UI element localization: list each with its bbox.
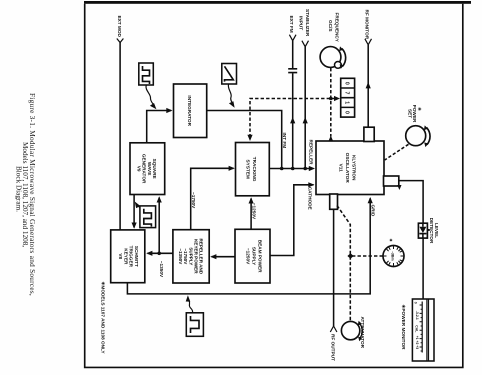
wire -1350V branch to square wave gen <box>158 198 160 254</box>
FREQUENCY knob <box>320 46 346 69</box>
svg-text:EXT MOD: EXT MOD <box>117 16 122 38</box>
dashed linkage knob to klystron <box>330 68 332 137</box>
svg-text:V11: V11 <box>339 164 344 172</box>
wire EXT MOD to SCHMITT TRIGGER <box>119 43 121 230</box>
wire beam supply to repeller supply <box>212 256 236 258</box>
svg-text:SUPPLY: SUPPLY <box>252 247 257 266</box>
svg-text:+1 +2 +3: +1 +2 +3 <box>415 336 419 350</box>
junction diamond on linkage <box>347 253 353 259</box>
wire klystron top stub to power monitor <box>399 181 423 299</box>
svg-text:−1350V: −1350V <box>159 261 164 278</box>
border frame of diagram <box>84 1 471 367</box>
svg-text:V8: V8 <box>118 253 123 259</box>
block SQUARE WAVE GENERATOR V9 <box>130 143 165 195</box>
node EXT FM connector <box>288 16 297 169</box>
node STABILIZER INPUT connector <box>298 9 309 169</box>
block BEAM POWER SUPPLY <box>235 229 270 283</box>
junction dots on repeller bus <box>303 167 307 171</box>
svg-text:REPELLER: REPELLER <box>309 139 314 165</box>
svg-text:0: 0 <box>413 302 417 304</box>
svg-text:7: 7 <box>344 92 350 95</box>
dBm meter circle <box>383 238 404 266</box>
svg-text:BEAM POWER: BEAM POWER <box>258 240 263 273</box>
frequency dial counter 0710 <box>341 78 355 117</box>
svg-text:TRACKING: TRACKING <box>252 157 257 182</box>
svg-text:RF OUTPUT: RF OUTPUT <box>331 334 336 361</box>
node RF OUTPUT connector <box>330 209 337 361</box>
svg-text:-dBm: -dBm <box>390 251 394 260</box>
wire RF MONITOR from klystron stub <box>367 45 369 128</box>
svg-text:INTEGRATOR: INTEGRATOR <box>187 95 192 126</box>
klystron RF monitor stub <box>364 127 374 141</box>
waveform icon box A (square wave at integrator input) <box>139 63 157 109</box>
svg-text:✳MODELS 1107 AND 1108 ONLY: ✳MODELS 1107 AND 1108 ONLY <box>100 282 105 355</box>
svg-text:OSCILLATOR: OSCILLATOR <box>345 153 350 184</box>
svg-text:RF MONITOR: RF MONITOR <box>365 10 370 40</box>
node RF MONITOR connector <box>365 10 372 128</box>
ATTENUATOR knob <box>341 321 362 342</box>
svg-text:V9: V9 <box>136 166 141 172</box>
svg-text:FREQUENCY: FREQUENCY <box>335 13 340 43</box>
waveform icon box D (keyer pulse) <box>186 295 204 336</box>
waveform icon box C (square wave at schmitt input) <box>135 202 156 228</box>
svg-text:−1250V: −1250V <box>251 203 256 220</box>
squiggle arrow to wire <box>228 84 233 105</box>
dashed branch to counter <box>332 98 338 100</box>
svg-text:STABILIZER: STABILIZER <box>305 9 310 37</box>
node EXT MOD connector <box>117 16 124 230</box>
svg-text:-3-2-1: -3-2-1 <box>415 311 419 320</box>
wire RF OUTPUT from klystron stub <box>333 209 335 326</box>
svg-text:−1750V: −1750V <box>191 192 196 209</box>
wire SQUARE WAVE GEN to INTEGRATOR <box>147 111 172 143</box>
svg-text:−1350V: −1350V <box>178 248 183 265</box>
svg-text:Block Diagram.: Block Diagram. <box>15 166 23 212</box>
dashed link power set knob to klystron <box>385 144 409 160</box>
block INTEGRATOR <box>174 84 207 138</box>
svg-text:GC/S: GC/S <box>328 20 333 31</box>
klystron top stub (power monitor tap) <box>384 176 399 186</box>
svg-text:−1250V: −1250V <box>246 248 251 265</box>
block REPELLER AND KEYER POWER SUPPLY <box>173 230 209 283</box>
small arrow near stub <box>397 185 401 190</box>
power monitor meter <box>412 299 434 361</box>
squiggle arrow to keyer wire <box>188 299 193 313</box>
svg-text:ATTENUATOR: ATTENUATOR <box>360 317 365 349</box>
dashed link klystron output stub to attenuator <box>337 206 350 321</box>
junction on linkage <box>329 97 333 101</box>
svg-text:CAL: CAL <box>414 325 418 332</box>
wire keyer output to klystron GRID <box>127 198 370 294</box>
svg-text:GRID: GRID <box>371 205 376 217</box>
klystron output stub (RF output) <box>330 194 338 209</box>
wire SQUARE WAVE GEN to SCHMITT TRIGGER <box>133 195 135 228</box>
svg-text:EXT FM: EXT FM <box>289 16 294 33</box>
wire -1350V repeller supply to schmitt keyer <box>148 252 173 254</box>
svg-text:1: 1 <box>344 101 350 104</box>
svg-text:0: 0 <box>344 111 350 114</box>
svg-text:INPUT: INPUT <box>298 16 303 30</box>
POWER SET knob <box>406 125 430 147</box>
wire -1250V beam supply to tracking <box>250 199 252 230</box>
capacitor in EXT FM line <box>288 69 297 73</box>
svg-text:CATHODE: CATHODE <box>308 187 313 210</box>
svg-text:0: 0 <box>344 82 350 85</box>
squiggle arrow to wire <box>137 205 140 208</box>
waveform icon box B (ramp at integrator output) <box>222 64 237 108</box>
svg-text:✳POWER MONITOR: ✳POWER MONITOR <box>401 305 406 351</box>
wire -1750V repeller supply to tracking <box>191 168 234 229</box>
node FREQUENCY GC/S label <box>328 13 340 43</box>
squiggle arrow to wire <box>146 85 155 106</box>
wire EXT FM right segment to repeller node <box>292 73 294 168</box>
wire repeller bus TRACKING to klystron <box>269 168 313 170</box>
wire EXT FM left segment <box>292 41 294 68</box>
svg-text:SET: SET <box>407 109 412 118</box>
level detector diode box <box>418 223 427 238</box>
dashed link to dBm meter <box>352 255 383 257</box>
junction -1350V branch <box>157 252 161 256</box>
wire INTEGRATOR output (INT FM) <box>207 111 282 169</box>
block TRACKING SYSTEM <box>236 143 270 196</box>
dashed branch to tracking system <box>250 99 330 138</box>
block SCHMITT TRIGGER KEYER V8 <box>111 230 145 283</box>
wire STABILIZER INPUT to repeller node <box>304 47 306 169</box>
block KLYSTRON OSCILLATOR V11 <box>316 141 384 195</box>
svg-text:DETECTOR: DETECTOR <box>429 218 434 244</box>
wire CATHODE klystron to beam supply <box>271 185 314 256</box>
svg-text:KLYSTRON: KLYSTRON <box>352 155 357 181</box>
svg-text:INT FM: INT FM <box>282 133 287 149</box>
svg-text:SYSTEM: SYSTEM <box>245 159 250 178</box>
